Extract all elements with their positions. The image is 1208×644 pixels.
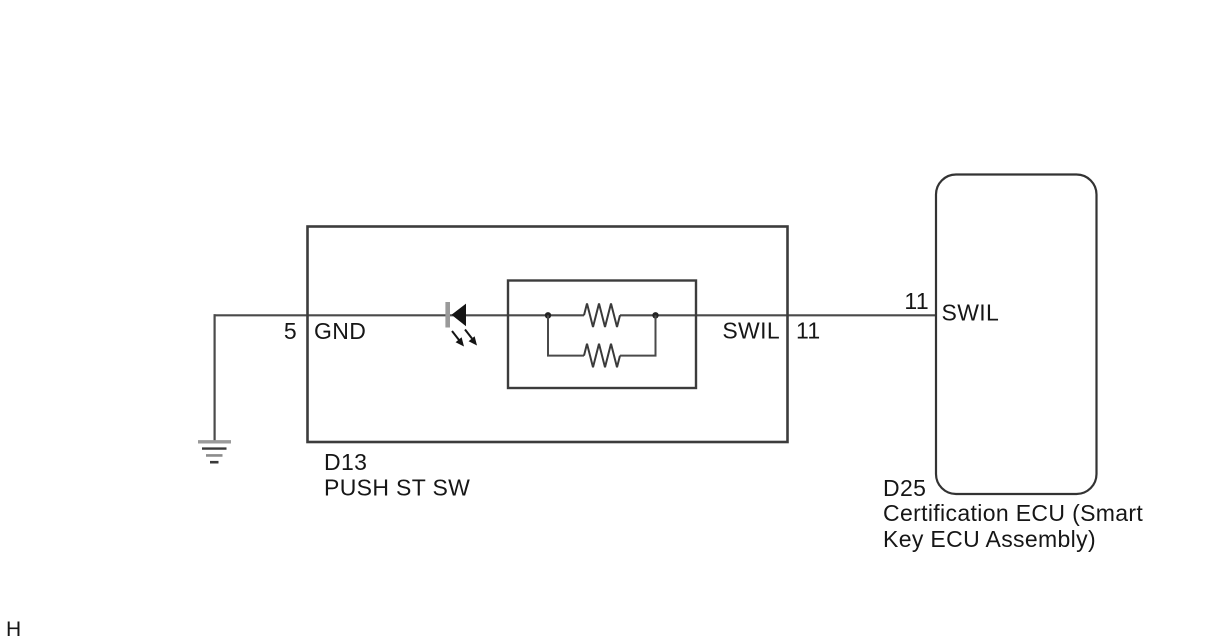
svg-text:11: 11 [904, 288, 929, 314]
wire: bottom branch left vertical [547, 315, 549, 355]
svg-text:SWIL: SWIL [942, 300, 1000, 326]
svg-text:H: H [6, 618, 22, 641]
svg-text:D13: D13 [324, 449, 367, 475]
svg-text:PUSH ST SW: PUSH ST SW [324, 475, 470, 501]
svg-text:Certification ECU (Smart: Certification ECU (Smart [883, 500, 1143, 526]
LED D13 indicator [445, 302, 477, 347]
svg-text:11: 11 [796, 318, 821, 344]
svg-text:GND: GND [314, 318, 366, 344]
resistor R-bottom [584, 344, 620, 368]
node junction left [545, 312, 551, 318]
wire: bottom branch right vertical [655, 315, 657, 355]
wire: vertical drop to ground [214, 314, 216, 441]
svg-text:SWIL: SWIL [722, 318, 780, 344]
svg-text:5: 5 [284, 318, 297, 344]
wire: bottom branch right horizontal [620, 355, 657, 357]
svg-text:D25: D25 [883, 475, 926, 501]
wire: bottom branch left horizontal [547, 355, 584, 357]
switch D13 box [308, 227, 788, 443]
resistor R-top [584, 304, 620, 328]
svg-text:Key ECU Assembly): Key ECU Assembly) [883, 526, 1096, 552]
wire: main horizontal net GND/SWIL left segment [214, 314, 585, 316]
wire: main horizontal net middle-right segment [620, 314, 935, 316]
connector D25 ECU rounded box [936, 175, 1097, 495]
resistor block box [508, 281, 696, 389]
ground [198, 442, 231, 462]
node junction right [652, 312, 658, 318]
